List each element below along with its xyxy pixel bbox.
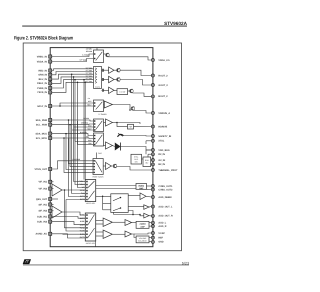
svg-text:0.7 Vpp: 0.7 Vpp (86, 80, 92, 83)
svg-text:SECAM: SECAM (86, 50, 93, 53)
svg-text:GRN_IN: GRN_IN (38, 74, 47, 77)
svg-text:CHROMA: CHROMA (81, 121, 89, 124)
svg-text:HFLY_IN: HFLY_IN (38, 105, 48, 108)
svg-text:FBLK_IN: FBLK_IN (37, 82, 47, 85)
svg-text:AMP: AMP (140, 225, 145, 228)
svg-text:RED_IN: RED_IN (38, 69, 47, 72)
svg-text:AUD_IN1: AUD_IN1 (37, 215, 48, 218)
svg-text:VCAP: VCAP (158, 232, 165, 235)
svg-text:AUD_DEEM: AUD_DEEM (158, 196, 171, 199)
svg-text:ROUT_2: ROUT_2 (158, 74, 168, 77)
svg-text:AMP: AMP (139, 187, 144, 190)
svg-text:B2_IN: B2_IN (158, 163, 165, 166)
svg-text:XTAL: XTAL (158, 140, 164, 143)
svg-text:0.7 Vpp: 0.7 Vpp (86, 72, 92, 75)
svg-text:SDA_NVM: SDA_NVM (36, 119, 47, 122)
svg-text:FB2: FB2 (88, 142, 91, 145)
svg-text:EXTR: EXTR (80, 236, 85, 239)
svg-text:CVBS_OUT2: CVBS_OUT2 (158, 188, 173, 191)
svg-text:STV9602A: STV9602A (164, 21, 188, 26)
svg-text:AUDIO: AUDIO (139, 223, 146, 226)
svg-text:SCL_NVM: SCL_NVM (36, 123, 47, 126)
svg-text:BLU_IN: BLU_IN (39, 78, 48, 81)
svg-text:R1/G1/B1: R1/G1/B1 (80, 131, 87, 134)
svg-text:VDDA_IN: VDDA_IN (37, 60, 48, 63)
svg-text:VOLUME: VOLUME (139, 237, 147, 240)
svg-text:0.7 Vpp: 0.7 Vpp (86, 77, 92, 80)
svg-text:AUD_IN2: AUD_IN2 (37, 220, 48, 223)
svg-text:VIF_IN2: VIF_IN2 (38, 187, 47, 190)
svg-text:SCL_MCU: SCL_MCU (36, 137, 48, 140)
svg-text:5/23: 5/23 (182, 261, 189, 265)
svg-text:1.4 Vpp: 1.4 Vpp (82, 54, 89, 57)
svg-text:OSD: OSD (98, 152, 103, 155)
svg-text:1/2 SW: 1/2 SW (119, 91, 125, 94)
svg-text:GOUT_2: GOUT_2 (158, 84, 168, 87)
svg-text:Clamp: Clamp (95, 86, 100, 89)
svg-text:SVHS: SVHS (80, 189, 86, 192)
svg-text:VTUN_OUT: VTUN_OUT (34, 168, 47, 171)
svg-text:FB1: FB1 (86, 136, 89, 139)
svg-text:AUDIO SEL: AUDIO SEL (86, 242, 96, 245)
svg-text:HALF: HALF (87, 127, 91, 130)
svg-text:CVBS_IN: CVBS_IN (37, 87, 47, 90)
svg-text:AUD_L: AUD_L (158, 222, 166, 225)
svg-text:V. Switch: V. Switch (98, 113, 107, 116)
svg-text:IN2: IN2 (145, 162, 148, 165)
svg-text:SIF_IN2: SIF_IN2 (38, 210, 47, 213)
svg-text:VIDEO SEL: VIDEO SEL (86, 202, 96, 205)
svg-text:REF: REF (158, 236, 163, 239)
svg-text:0.7 Vpp: 0.7 Vpp (86, 74, 92, 77)
svg-text:0.7 Vpp: 0.7 Vpp (86, 69, 92, 72)
svg-text:RGB Switch: RGB Switch (93, 175, 104, 178)
svg-text:SAFETY_IN: SAFETY_IN (158, 135, 171, 138)
svg-text:VREG_IN: VREG_IN (37, 55, 48, 58)
svg-text:G2_IN: G2_IN (158, 159, 165, 162)
svg-text:SDA_MCU: SDA_MCU (35, 132, 47, 135)
svg-text:SIF_IN1: SIF_IN1 (38, 203, 47, 206)
svg-text:VDD_BUS: VDD_BUS (158, 149, 170, 152)
svg-text:AU2L: AU2L (80, 220, 86, 223)
svg-text:0.7 Vpp: 0.7 Vpp (86, 66, 92, 69)
svg-text:BALANCE: BALANCE (138, 240, 147, 243)
svg-text:AGND_AU: AGND_AU (35, 233, 47, 236)
svg-text:VIF_IN1: VIF_IN1 (38, 181, 47, 184)
svg-text:VDRIVE_A: VDRIVE_A (158, 112, 170, 115)
svg-text:THERMAL_PROT: THERMAL_PROT (158, 169, 178, 172)
svg-text:Figure 2. STV9602A Block Diagr: Figure 2. STV9602A Block Diagram (14, 36, 73, 42)
svg-text:HDRIVE: HDRIVE (158, 125, 167, 128)
svg-text:AUD_OUT_R: AUD_OUT_R (158, 215, 173, 218)
svg-text:AUD_R: AUD_R (158, 225, 166, 228)
svg-text:CVBS_OUT1: CVBS_OUT1 (158, 185, 173, 188)
svg-text:BOUT_2: BOUT_2 (158, 95, 168, 98)
svg-text:YSVS_IN: YSVS_IN (37, 91, 47, 94)
svg-text:GND: GND (158, 241, 163, 244)
svg-text:VDDA_2.5: VDDA_2.5 (158, 59, 170, 62)
svg-text:QSS_OUT: QSS_OUT (36, 198, 48, 201)
svg-text:R2_IN: R2_IN (158, 153, 165, 156)
svg-text:0.7 Vpp: 0.7 Vpp (80, 59, 87, 62)
svg-text:AUD_OUT_L: AUD_OUT_L (158, 205, 173, 208)
svg-text:4 x: 4 x (88, 97, 90, 100)
